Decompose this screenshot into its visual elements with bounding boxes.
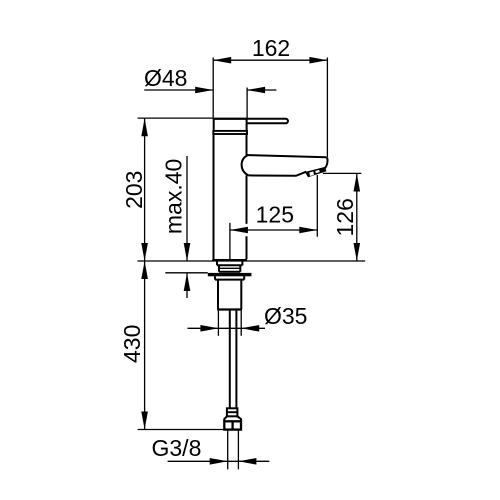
svg-text:max.40: max.40 bbox=[160, 159, 186, 234]
svg-text:125: 125 bbox=[256, 201, 294, 227]
svg-text:162: 162 bbox=[252, 35, 290, 61]
svg-text:126: 126 bbox=[332, 198, 358, 236]
svg-text:203: 203 bbox=[121, 171, 147, 209]
svg-text:430: 430 bbox=[119, 325, 145, 363]
svg-text:Ø35: Ø35 bbox=[264, 303, 307, 329]
svg-text:Ø48: Ø48 bbox=[144, 65, 187, 91]
svg-text:G3/8: G3/8 bbox=[152, 435, 202, 461]
